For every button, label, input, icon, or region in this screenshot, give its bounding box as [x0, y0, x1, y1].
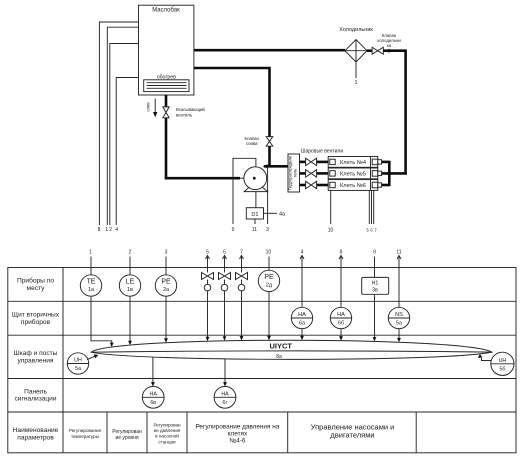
- cell Регулирование температуры: [69, 428, 102, 439]
- panel station UH 5б: [491, 352, 514, 375]
- cell Регулирование давления в насосной станции: [153, 422, 181, 444]
- svg-text:параметров: параметров: [17, 434, 54, 441]
- instrument PE 2a: [155, 275, 176, 296]
- svg-text:Клеть №5: Клеть №5: [340, 172, 366, 178]
- svg-text:11: 11: [396, 249, 401, 255]
- svg-text:D1: D1: [251, 212, 258, 218]
- svg-text:Панель: Панель: [24, 388, 47, 395]
- svg-text:Шкаф и посты: Шкаф и посты: [14, 350, 58, 357]
- wire column 2 to controller: [129, 296, 131, 342]
- alarm HA 6г: [214, 386, 236, 408]
- cell Регулирование уровня: [112, 429, 142, 441]
- svg-text:2: 2: [129, 249, 132, 255]
- sense line 2 (tank level tap): [109, 44, 138, 234]
- wire column 10: [268, 257, 270, 271]
- svg-text:НА: НА: [337, 312, 345, 318]
- wire column 8 to controller: [340, 329, 342, 338]
- pipe: drain valve to pump discharge junction: [268, 146, 271, 167]
- svg-text:1: 1: [89, 249, 92, 255]
- svg-text:3: 3: [266, 227, 269, 233]
- svg-text:ие давления: ие давления: [154, 428, 181, 433]
- oil tank Маслобак: [139, 5, 194, 95]
- sense loop line 9 (pump suction tap): [232, 158, 256, 233]
- wire column 3: [165, 257, 167, 275]
- svg-text:Регулирование: Регулирование: [69, 428, 102, 433]
- table frame: [8, 268, 516, 453]
- wire column 3 to controller: [165, 296, 167, 339]
- svg-text:8а: 8а: [276, 354, 282, 360]
- wire column 8: [340, 256, 342, 308]
- stand box Клеть №4: [328, 157, 381, 168]
- motor link pump to D1: [255, 192, 257, 208]
- svg-text:месту: месту: [27, 285, 46, 292]
- svg-text:Щит вторичных: Щит вторичных: [12, 311, 60, 318]
- row label Шкаф и посты управления: [14, 350, 58, 364]
- pipe: valve to right riser and down to stands: [383, 51, 405, 175]
- svg-text:Регулирован: Регулирован: [112, 429, 142, 435]
- row label Наименование параметров: [13, 427, 59, 441]
- pipe: tank to cooler (return line top): [194, 49, 345, 52]
- cooler Холодильник (diamond): [339, 27, 373, 62]
- svg-text:6в: 6в: [150, 400, 156, 406]
- svg-text:НА: НА: [221, 391, 229, 397]
- stand box Клеть №5: [328, 168, 381, 179]
- return riser join: [388, 161, 391, 186]
- wire column 6 to controller: [224, 291, 226, 338]
- pipe: tank bottom suction: [165, 95, 168, 107]
- instrument HA 6a: [291, 307, 312, 328]
- pump H (circle with dot and saddle): [244, 167, 268, 192]
- svg-text:тель: тель: [293, 168, 298, 178]
- controller oval UIYCT 8a: [91, 340, 492, 360]
- svg-text:7: 7: [240, 249, 243, 255]
- svg-text:РЕ: РЕ: [161, 279, 171, 286]
- svg-text:вентиль: вентиль: [176, 112, 193, 117]
- column 4 number and arrow: [300, 249, 304, 259]
- svg-text:Шаровые вентили: Шаровые вентили: [301, 149, 343, 155]
- svg-text:11: 11: [252, 227, 257, 233]
- wire column 11: [398, 256, 400, 308]
- svg-text:4: 4: [301, 249, 304, 255]
- wire column 7: [241, 256, 243, 273]
- svg-text:Регулирован: Регулирован: [153, 422, 181, 427]
- link UH 5a to controller: [87, 354, 98, 359]
- wire column 2: [129, 257, 131, 275]
- wire column 1 to controller: [91, 296, 112, 343]
- wire column 5 to controller: [207, 291, 209, 338]
- pipe: discharge header to distributor: [264, 165, 288, 168]
- svg-text:5: 5: [206, 249, 209, 255]
- sense line 10 (stand tap): [328, 190, 334, 233]
- tag 4a leader: [264, 212, 287, 218]
- column 11 number and arrow: [396, 249, 401, 259]
- column 7 number and arrow: [240, 249, 244, 259]
- svg-text:1в: 1в: [127, 287, 133, 293]
- sense line 8 (tank top tap): [98, 22, 139, 233]
- svg-text:UH: UH: [74, 358, 82, 364]
- svg-text:Приборы по: Приборы по: [17, 277, 54, 285]
- svg-text:1а: 1а: [88, 287, 95, 293]
- svg-text:Наименование: Наименование: [13, 427, 59, 434]
- svg-text:6г: 6г: [223, 400, 228, 406]
- svg-text:6а: 6а: [299, 321, 305, 327]
- svg-text:Клеть №4: Клеть №4: [340, 160, 366, 166]
- wire column 6: [224, 256, 226, 273]
- stand box Клеть №6: [328, 180, 381, 191]
- suction valve Всасывающий вентиль: [163, 107, 206, 118]
- cell Управление насосами и двигателями: [311, 423, 395, 440]
- return pipe stand 6: [382, 184, 390, 187]
- svg-text:3в: 3в: [372, 288, 378, 294]
- wire column 11 to controller: [398, 329, 400, 339]
- svg-text:2д: 2д: [266, 282, 273, 288]
- link UH 5б to controller: [478, 354, 491, 361]
- svg-text:10: 10: [328, 228, 334, 234]
- ball valve 1: [306, 158, 317, 165]
- svg-text:НА: НА: [298, 312, 306, 318]
- svg-text:приборов: приборов: [21, 318, 51, 326]
- svg-text:ка: ка: [387, 43, 392, 48]
- svg-text:ие уровня: ие уровня: [115, 435, 138, 441]
- return pipe stand 4: [382, 161, 390, 164]
- svg-text:4: 4: [115, 227, 118, 233]
- svg-text:1: 1: [354, 80, 357, 86]
- wire column 9 to controller: [374, 294, 376, 338]
- flow arrow at pump discharge: [263, 164, 268, 168]
- cell Регулирование давления на клетях №4-6: [195, 424, 279, 445]
- row label Панель сигнализации: [14, 388, 56, 402]
- thin lead into pump center: [240, 177, 254, 179]
- pipe: tank to drain valve branch: [194, 68, 270, 137]
- row label Щит вторичных приборов: [12, 311, 60, 325]
- control valve 7: [236, 273, 248, 291]
- hydro distributor Гидрораспределитель: [288, 154, 300, 192]
- svg-text:5б: 5б: [499, 367, 505, 373]
- svg-text:NS: NS: [395, 312, 403, 318]
- svg-text:№4-6: №4-6: [229, 437, 246, 444]
- svg-text:8: 8: [98, 227, 101, 233]
- svg-text:Холодильник: Холодильник: [339, 27, 373, 33]
- svg-text:Клеть №6: Клеть №6: [340, 183, 366, 189]
- heater обогрев inside tank: [144, 74, 189, 91]
- svg-text:5а: 5а: [75, 366, 81, 372]
- wire column 4: [301, 256, 303, 308]
- svg-text:Маслобак: Маслобак: [152, 8, 180, 14]
- svg-text:слив: слив: [145, 102, 150, 112]
- wire controller to HA 6г: [223, 359, 227, 387]
- svg-text:сигнализации: сигнализации: [14, 396, 56, 403]
- wire column 9: [374, 257, 376, 278]
- column 8 number and arrow: [339, 249, 343, 259]
- svg-text:двигателями: двигателями: [330, 431, 374, 440]
- panel station UH 5a: [67, 353, 88, 374]
- sense line 4 (heater tap): [115, 78, 138, 234]
- svg-text:5а: 5а: [396, 321, 402, 327]
- svg-text:Н1: Н1: [372, 281, 379, 287]
- ball valve row 3 pipe: [300, 184, 306, 187]
- alarm HA 6в: [142, 386, 164, 408]
- flow arrow into cooler valve: [385, 49, 390, 53]
- svg-text:9: 9: [232, 227, 235, 233]
- svg-text:2: 2: [109, 227, 112, 233]
- svg-text:ТЕ: ТЕ: [87, 279, 96, 286]
- svg-text:станции: станции: [158, 439, 176, 444]
- svg-text:8: 8: [340, 249, 343, 255]
- pipe: cooler to valve: [367, 49, 372, 52]
- instrument NS 5a: [388, 307, 409, 328]
- sense line 3 (discharge pressure tap): [266, 166, 269, 233]
- cooler tag line and number 1: [354, 62, 357, 86]
- wire column 1: [90, 257, 92, 275]
- svg-text:слива: слива: [246, 141, 258, 146]
- svg-text:6: 6: [223, 249, 226, 255]
- control valve 5: [202, 273, 214, 291]
- hand switch box H1 3в: [362, 277, 389, 294]
- wire column 7 to controller: [241, 291, 243, 337]
- instrument PE 2д: [258, 270, 279, 291]
- svg-text:LЕ: LЕ: [126, 279, 135, 286]
- svg-text:6б: 6б: [338, 321, 344, 327]
- pipe: suction run to pump: [166, 118, 240, 178]
- ball valve 2: [306, 170, 317, 177]
- wire column 4 to controller: [301, 329, 303, 337]
- valve Клапан холодильника: [372, 33, 401, 54]
- svg-text:в насосной: в насосной: [155, 433, 179, 439]
- ball valve 3: [306, 181, 317, 188]
- column 6 number and arrow: [223, 249, 227, 259]
- instrument TE 1a: [80, 275, 101, 296]
- sense line 11 (motor): [252, 219, 257, 233]
- svg-text:1: 1: [105, 227, 108, 233]
- svg-text:3: 3: [165, 249, 168, 255]
- wire column 5: [207, 256, 209, 273]
- valve Клапан слива: [244, 136, 272, 146]
- control valve 6: [219, 273, 231, 291]
- svg-text:температуры: температуры: [71, 434, 99, 439]
- svg-text:РЕ: РЕ: [264, 274, 274, 281]
- ball valve row 1 pipe: [300, 161, 306, 164]
- row label Приборы по месту: [17, 277, 54, 292]
- wire column 10 to controller: [268, 292, 270, 337]
- instrument LE 1в: [119, 275, 140, 296]
- return pipe stand 5 to riser: [382, 172, 407, 175]
- svg-text:10: 10: [266, 249, 272, 255]
- svg-text:9: 9: [373, 249, 376, 255]
- drain label слив and arrow: [145, 99, 157, 118]
- motor box D1: [246, 208, 263, 219]
- column 5 number and arrow: [206, 249, 210, 259]
- sense line 1 (tank temperature tap): [105, 27, 138, 233]
- svg-text:НА: НА: [150, 391, 158, 397]
- wire controller to HA 6в: [151, 357, 155, 387]
- svg-text:4а: 4а: [279, 212, 286, 218]
- svg-text:UIYCT: UIYCT: [269, 342, 292, 351]
- sense lines 5 6 7 (stand taps): [366, 190, 377, 232]
- instrument HA 6б: [330, 307, 351, 328]
- svg-text:UH: UH: [499, 358, 507, 364]
- ball valve row 2 pipe: [300, 172, 306, 175]
- svg-text:управления: управления: [18, 357, 54, 364]
- svg-text:2а: 2а: [163, 287, 170, 293]
